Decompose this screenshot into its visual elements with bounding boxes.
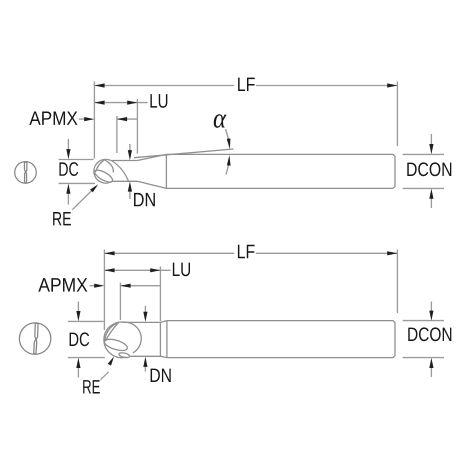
taper bottom edge	[137, 181, 166, 188]
ball helix edge	[112, 161, 129, 182]
DN top arrowhead bottom	[143, 312, 147, 322]
DN bottom arrow tail bottom	[144, 366, 146, 372]
DCON top extension line	[403, 153, 444, 155]
APMX right arrowhead bottom	[120, 284, 130, 288]
DC bottom arrowhead	[66, 184, 70, 194]
DC top arrowhead	[66, 149, 70, 159]
DC bottom arrow tail	[67, 193, 69, 205]
neck bottom line	[112, 180, 137, 182]
LU left arrowhead bottom	[104, 268, 114, 272]
label DN top	[134, 193, 155, 206]
DCON bottom arrowhead	[429, 189, 433, 199]
shank left face bottom	[166, 321, 168, 358]
label DC top	[59, 162, 78, 176]
front view circle (end view of tool)	[15, 162, 37, 184]
label LU top	[150, 94, 167, 108]
alpha upper arrowhead	[227, 139, 231, 150]
flute end face	[159, 322, 161, 356]
front view flute slot	[24, 162, 27, 183]
APMX dimension tail	[117, 118, 137, 120]
DN bottom arrowhead	[128, 181, 132, 191]
DCON top arrowhead bottom	[429, 311, 433, 321]
label DCON top	[407, 162, 451, 176]
ball crescent inner arc bottom	[105, 322, 119, 340]
neck top line	[111, 160, 138, 162]
alpha lower arrowhead	[227, 155, 231, 166]
shank left face	[165, 154, 167, 188]
taper top edge	[137, 154, 166, 160]
RE leader line	[72, 190, 92, 210]
label DCON bottom	[408, 327, 451, 341]
RE leader line bottom	[100, 372, 108, 380]
LF dimension line	[94, 85, 397, 87]
DCON bottom arrow tail	[430, 198, 432, 208]
LF extension line left bottom	[103, 250, 105, 331]
ball flute lens	[93, 168, 114, 185]
APMX extension line bottom	[119, 283, 121, 321]
front view circle bottom (end view)	[19, 323, 50, 354]
DCON bottom extension line bottom	[403, 357, 444, 359]
label DC bottom	[70, 332, 90, 346]
LF extension line right bottom	[396, 250, 398, 314]
transition bottom	[160, 356, 167, 357]
tool ball outline	[94, 159, 112, 183]
DCON top arrowhead	[429, 144, 433, 154]
ball helix edge bottom	[122, 322, 141, 353]
DC bottom extension line bottom	[68, 357, 105, 359]
LU left arrowhead	[94, 101, 104, 105]
alpha taper construction line	[134, 149, 233, 158]
LF right arrowhead bottom	[387, 251, 397, 255]
flute top line bottom view	[125, 321, 160, 323]
label APMX bottom	[38, 278, 87, 291]
RE leader arrowhead	[90, 184, 98, 192]
front view flute slot bottom	[34, 323, 38, 354]
DCON top arrow tail	[430, 134, 432, 145]
label alpha	[214, 114, 227, 128]
DC top arrow tail	[67, 139, 69, 150]
DN bottom arrow tail	[129, 191, 131, 200]
label LF top	[238, 78, 255, 91]
alpha lower arc tail	[226, 165, 229, 175]
label DN bottom	[151, 369, 171, 382]
APMX dimension tail bottom	[120, 285, 160, 287]
label RE top	[53, 212, 71, 225]
LU right arrowhead	[127, 101, 137, 105]
ball crescent inner arc	[96, 160, 105, 172]
LF extension line left	[93, 82, 95, 159]
ball radial flute edge bottom	[106, 322, 119, 341]
RE leader arrowhead bottom	[108, 356, 114, 365]
DC bottom extension line	[59, 182, 96, 184]
APMX leader line bottom	[90, 285, 95, 287]
tool ball outline bottom	[104, 322, 126, 358]
LF left arrowhead bottom	[104, 251, 114, 255]
DC bottom arrow tail bottom	[77, 367, 79, 377]
ball bottom small lens	[119, 352, 130, 358]
LF right arrowhead	[387, 83, 397, 87]
label LU bottom	[173, 263, 190, 277]
LU dimension line bottom	[104, 269, 170, 271]
DC top extension line bottom	[68, 320, 104, 322]
DCON top extension line bottom	[403, 320, 444, 322]
LU dimension line	[94, 102, 147, 104]
DC bottom arrowhead bottom	[76, 358, 80, 368]
LU extension line	[136, 99, 138, 154]
shank outline	[166, 154, 395, 188]
DN bottom arrowhead bottom	[143, 357, 147, 367]
LU right arrowhead bottom	[150, 268, 160, 272]
label RE bottom	[83, 380, 100, 393]
APMX right arrowhead	[117, 117, 127, 121]
DCON bottom extension line	[403, 187, 444, 189]
LF left arrowhead	[94, 83, 104, 87]
DC top extension line	[59, 159, 94, 161]
DC top arrow tail bottom	[77, 302, 79, 313]
DN top arrow tail	[129, 144, 131, 152]
APMX leader line	[79, 118, 85, 120]
DCON top arrow tail bottom	[430, 302, 432, 312]
LF extension line right	[396, 82, 398, 147]
APMX leader arrowhead	[84, 117, 94, 121]
DC top arrowhead bottom	[76, 311, 80, 321]
ball flute lens bottom	[103, 337, 128, 353]
APMX extension line	[116, 116, 118, 153]
DN top arrow tail bottom	[144, 306, 146, 313]
flute bottom line bottom view	[130, 355, 161, 357]
label APMX top	[29, 111, 77, 124]
LU extension line bottom	[159, 267, 161, 322]
DCON bottom arrow tail bottom	[430, 367, 432, 377]
shank outline bottom	[167, 321, 395, 358]
ball radial flute edge	[105, 160, 114, 173]
transition top	[160, 321, 167, 323]
APMX leader arrowhead bottom	[94, 284, 104, 288]
label LF bottom	[238, 245, 255, 258]
DCON bottom arrowhead bottom	[429, 358, 433, 368]
DN top arrowhead	[128, 150, 132, 160]
LF dimension line bottom	[104, 252, 397, 254]
alpha leader line	[226, 129, 229, 139]
